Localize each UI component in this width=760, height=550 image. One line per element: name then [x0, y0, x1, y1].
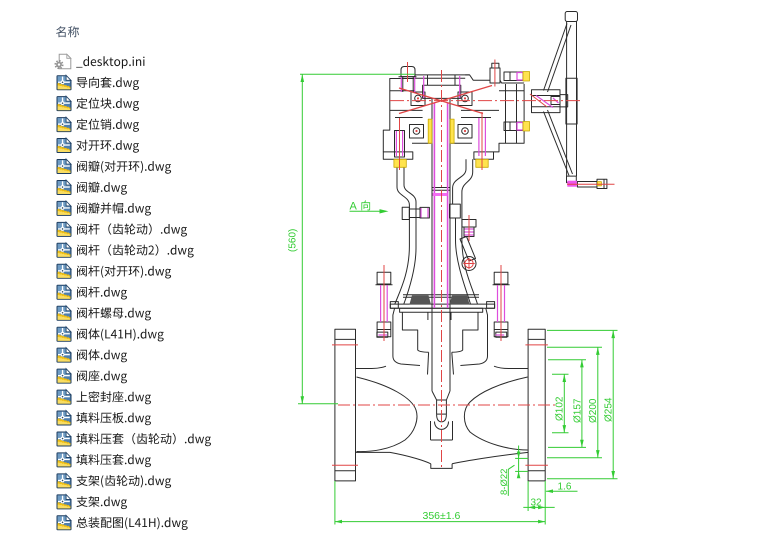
svg-text:356±1.6: 356±1.6 [423, 510, 461, 522]
svg-text:Ø200: Ø200 [588, 398, 599, 423]
svg-text:32: 32 [531, 497, 543, 508]
svg-text:A: A [350, 200, 358, 212]
svg-text:Ø102: Ø102 [555, 396, 566, 421]
svg-text:Ø254: Ø254 [604, 397, 615, 422]
svg-text:8-Ø22: 8-Ø22 [499, 469, 510, 495]
svg-text:Ø157: Ø157 [572, 398, 583, 423]
svg-text:(560): (560) [288, 229, 299, 252]
svg-text:1.6: 1.6 [558, 482, 572, 493]
